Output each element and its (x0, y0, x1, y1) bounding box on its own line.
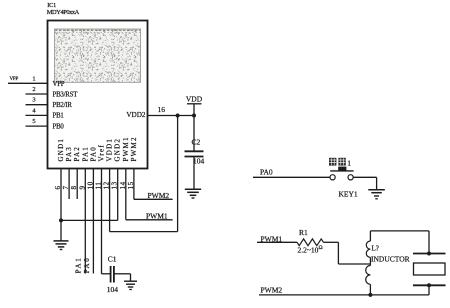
svg-text:PA0: PA0 (89, 146, 97, 162)
piezo buzzer element (413, 254, 446, 295)
svg-text:MDY4P0xxA: MDY4P0xxA (47, 9, 80, 16)
pin 1 (VPP) (8, 75, 65, 88)
wire PWM2 bottom rail (259, 294, 429, 296)
svg-text:PA1: PA1 (81, 146, 89, 162)
svg-text:6: 6 (54, 185, 62, 189)
svg-text:PB2/IR: PB2/IR (53, 102, 73, 109)
svg-text:14: 14 (119, 181, 127, 189)
pin 6 (GND1) (54, 138, 65, 241)
svg-text:PB1: PB1 (53, 113, 64, 120)
junction dot buzzer bottom (427, 283, 431, 287)
svg-text:1: 1 (347, 158, 351, 167)
power symbol VDD (186, 95, 203, 116)
ground symbol under GND1 (54, 241, 69, 250)
svg-text:R1: R1 (299, 228, 308, 237)
svg-text:C2: C2 (192, 137, 201, 146)
svg-text:GND2: GND2 (114, 138, 122, 162)
svg-text:8: 8 (70, 185, 78, 189)
svg-text:PWM1: PWM1 (122, 136, 130, 161)
svg-text:C1: C1 (108, 255, 117, 264)
svg-text:VDD1: VDD1 (106, 138, 114, 162)
svg-text:L?: L? (372, 245, 379, 253)
svg-text:11: 11 (95, 182, 103, 190)
wire KEY1 to ground (353, 177, 376, 189)
pin 4 (PB1) (26, 107, 64, 119)
wire PWM2 stub right (134, 198, 173, 200)
pin 11 (Vref) (95, 144, 106, 274)
pin 12 (VDD1) (103, 138, 114, 232)
svg-text:16: 16 (158, 105, 166, 114)
svg-text:PWM2: PWM2 (148, 191, 170, 200)
svg-text:2.2~10: 2.2~10 (298, 246, 319, 255)
pin 10 (PA0) (86, 146, 97, 274)
junction dot inductor bottom (368, 293, 372, 297)
junction dot at VDD stem (192, 114, 196, 118)
pin 3 (PB2/IR) (26, 97, 73, 109)
pin 2 (PB3/RST) (26, 86, 79, 98)
svg-text:Vref: Vref (98, 144, 106, 161)
svg-text:Ω: Ω (319, 245, 323, 251)
ground under C1 (124, 281, 137, 289)
svg-text:PWM2: PWM2 (261, 285, 283, 294)
wire R1 to inductor tap (324, 242, 371, 264)
wire PWM1 stub right (126, 219, 173, 221)
svg-text:104: 104 (107, 285, 119, 294)
pin 8 (PA2) (70, 146, 81, 199)
svg-text:10: 10 (86, 181, 94, 189)
wire GND2 to GND1 (61, 219, 118, 221)
svg-text:5: 5 (32, 118, 35, 125)
svg-text:13: 13 (111, 181, 119, 189)
pin 14 (PWM1) (119, 136, 130, 220)
svg-text:PA0: PA0 (260, 168, 273, 177)
IC1 internal shaded die region (55, 29, 141, 82)
wire Vref to C1 (102, 273, 111, 275)
svg-text:PA3: PA3 (65, 146, 73, 162)
ground under C2 (185, 189, 201, 198)
svg-text:9: 9 (78, 185, 86, 189)
pin 5 (PB0) (26, 118, 65, 130)
wire inductor top to buzzer (370, 231, 429, 254)
wire C1 right to ground (115, 274, 131, 281)
pin 16 (VDD2) (126, 105, 194, 119)
capacitor C2 (185, 116, 205, 189)
svg-text:PA2: PA2 (73, 146, 81, 162)
svg-text:PB0: PB0 (53, 123, 65, 130)
svg-text:2: 2 (32, 86, 35, 93)
svg-text:7: 7 (62, 185, 70, 189)
pin 9 (PA1) (78, 146, 89, 274)
ground right of KEY1 (368, 190, 385, 199)
svg-text:PB3/RST: PB3/RST (53, 91, 79, 98)
svg-text:KEY1: KEY1 (339, 189, 358, 198)
svg-text:PA0: PA0 (83, 257, 91, 274)
pin 7 (PA3) (62, 146, 73, 199)
pin 15 (PWM2) (127, 136, 138, 199)
svg-text:15: 15 (127, 181, 135, 189)
pin 13 (GND2) (111, 138, 122, 221)
junction dot GND1/GND2 (59, 218, 63, 222)
wire PWM1 to R1 (257, 241, 297, 243)
svg-text:VDD2: VDD2 (126, 111, 146, 119)
svg-text:INDUCTOR: INDUCTOR (371, 254, 410, 263)
junction dot pin16 branch (176, 114, 180, 118)
inductor L? INDUCTOR (tapped) (366, 231, 410, 295)
svg-text:GND1: GND1 (57, 138, 65, 162)
svg-text:PWM2: PWM2 (130, 136, 138, 161)
junction dot buzzer top (427, 252, 431, 256)
svg-text:VPP: VPP (53, 81, 65, 88)
wire VDD2 branch down and left to VDD1 (110, 116, 178, 232)
resistor R1 (297, 228, 324, 255)
svg-text:PWM1: PWM1 (146, 211, 168, 220)
capacitor C1 (107, 255, 119, 294)
IC IC1 body (48, 21, 148, 169)
svg-text:12: 12 (103, 181, 111, 189)
svg-text:3: 3 (32, 97, 35, 104)
svg-text:VPP: VPP (10, 77, 19, 82)
svg-text:1: 1 (32, 75, 35, 82)
pushbutton KEY1 (330, 167, 358, 199)
svg-text:IC1: IC1 (47, 2, 56, 9)
wire PA0 to KEY1 (253, 176, 330, 178)
svg-text:104: 104 (193, 156, 205, 165)
svg-text:PA1: PA1 (75, 257, 83, 274)
label 录音1 (record 1) above button (329, 158, 351, 168)
svg-text:VDD: VDD (186, 95, 203, 104)
